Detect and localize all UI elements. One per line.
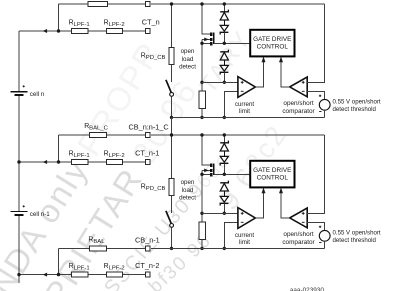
node: junction at rail <box>17 273 20 276</box>
wire <box>223 4 225 12</box>
wire <box>223 164 225 175</box>
wire: channel bottom rail <box>172 116 325 118</box>
node <box>200 133 203 136</box>
wire <box>223 135 225 143</box>
node <box>223 116 226 119</box>
node <box>223 81 226 84</box>
wire: source branch <box>201 170 203 222</box>
wire arrow <box>43 273 47 277</box>
wire: - input row <box>224 91 238 117</box>
svg-text:detect threshold: detect threshold <box>333 106 376 113</box>
transistor Q (balancing MOSFET) <box>210 163 212 166</box>
wire: left battery rail <box>18 31 20 91</box>
svg-text:detect threshold: detect threshold <box>333 237 376 244</box>
svg-text:aaa-023930: aaa-023930 <box>290 287 325 291</box>
svg-text:open/short: open/short <box>283 231 313 238</box>
wire <box>223 33 225 44</box>
wire: gate lead <box>214 42 250 44</box>
svg-text:0.55 V open/short: 0.55 V open/short <box>333 230 381 237</box>
svg-text:open: open <box>181 179 195 186</box>
svg-text:GATE DRIVE: GATE DRIVE <box>253 36 291 43</box>
block U: GATE DRIVE CONTROL <box>250 161 294 188</box>
svg-text:CT_n-2: CT_n-2 <box>135 261 159 270</box>
wire <box>223 73 225 83</box>
wire: + input from CB rail <box>307 135 325 213</box>
node <box>200 2 203 5</box>
node <box>170 116 173 119</box>
wire <box>171 65 173 82</box>
op-amp: current limit <box>238 208 255 229</box>
op-amp: current limit <box>238 77 255 98</box>
svg-text:current: current <box>235 101 255 108</box>
resistor RPD_CB <box>169 48 174 65</box>
wire: CB mid branch <box>58 135 60 162</box>
wire: CB bottom branch <box>58 249 60 275</box>
node <box>200 212 203 215</box>
resistor RPD_CB <box>169 179 174 196</box>
resistor (current sense) <box>199 222 205 240</box>
resistor RLPF-1 <box>71 29 88 34</box>
pin CT_n <box>145 29 150 34</box>
svg-text:limit: limit <box>239 239 250 246</box>
wire: - input to threshold source <box>307 222 325 230</box>
svg-text:comparator: comparator <box>282 239 315 246</box>
pin CT_n-1 <box>145 160 150 165</box>
node <box>200 247 203 250</box>
svg-text:detect: detect <box>179 64 196 71</box>
resistor <box>90 133 107 138</box>
wire: CB row <box>59 248 90 250</box>
svg-text:open/short: open/short <box>283 100 313 107</box>
switch: open load detect <box>166 80 171 93</box>
resistor RLPF-1 <box>71 160 88 165</box>
svg-text:cell n-1: cell n-1 <box>30 211 51 218</box>
wire: gate lead <box>214 173 250 175</box>
comparator: open/short <box>290 77 308 97</box>
node <box>223 133 226 136</box>
wire <box>223 204 225 214</box>
node <box>170 247 173 250</box>
wire: LPF row <box>19 161 71 163</box>
wire: - input row <box>224 222 238 248</box>
wire arrow <box>43 29 47 33</box>
svg-text:GATE DRIVE: GATE DRIVE <box>253 167 291 174</box>
resistor RLPF-2 <box>106 29 122 34</box>
pin CB_n <box>145 2 150 7</box>
wire: drain branch <box>202 4 211 34</box>
wire: comparator output <box>281 58 290 87</box>
node: junction at CB branch <box>57 273 60 276</box>
svg-text:0.55 V open/short: 0.55 V open/short <box>333 99 381 106</box>
svg-text:CB_n:n-1_C: CB_n:n-1_C <box>129 122 169 131</box>
node <box>200 42 203 45</box>
comparator: open/short <box>290 208 308 228</box>
node <box>170 133 173 136</box>
resistor RLPF-1 <box>71 272 88 277</box>
node <box>223 2 226 5</box>
svg-text:CT_n: CT_n <box>142 18 160 27</box>
watermark <box>0 26 293 291</box>
node <box>200 81 203 84</box>
wire: source branch <box>201 39 203 91</box>
pin CB_n:n-1_C <box>145 133 150 138</box>
source V: 0.55 V threshold <box>319 230 330 241</box>
svg-text:limit: limit <box>239 108 250 115</box>
transistor Q (balancing MOSFET) <box>210 32 212 35</box>
node <box>170 2 173 5</box>
switch: open load detect <box>166 211 171 224</box>
wire <box>171 196 173 213</box>
node <box>200 173 203 176</box>
wire: cell n top feed <box>58 4 60 31</box>
wire <box>201 240 203 249</box>
zener pair D2 (back-to-back) <box>220 50 228 52</box>
wire <box>171 227 173 248</box>
zener pair D2 (back-to-back) <box>220 181 228 183</box>
wire: + input row <box>202 212 238 214</box>
svg-text:load: load <box>182 187 194 194</box>
wire: link to CB row <box>171 117 173 135</box>
svg-text:CB_n-1: CB_n-1 <box>135 236 160 245</box>
svg-text:CT_n-1: CT_n-1 <box>135 149 159 158</box>
wire: current limit output <box>255 189 263 219</box>
node <box>200 116 203 119</box>
pin CT_n-2 <box>145 272 150 277</box>
battery cell n-1 <box>11 211 28 213</box>
wire: RPD_CB branch <box>171 135 173 179</box>
wire: + input from CB rail <box>307 4 325 82</box>
svg-text:load: load <box>182 56 194 63</box>
wire: current limit output <box>255 58 263 88</box>
node: junction at rail <box>17 160 20 163</box>
svg-text:CONTROL: CONTROL <box>257 175 289 182</box>
wire <box>324 110 326 117</box>
resistor <box>90 246 107 251</box>
svg-text:open: open <box>181 48 195 55</box>
node <box>223 42 226 45</box>
resistor (current sense) <box>199 91 205 109</box>
wire: CB row <box>59 134 90 136</box>
wire arrow <box>43 160 47 164</box>
wire <box>171 96 173 117</box>
source V: 0.55 V threshold <box>319 99 330 110</box>
wire: + input row <box>202 81 238 83</box>
pin CB_n-1 <box>145 246 150 251</box>
wire <box>201 109 203 118</box>
node <box>223 173 226 176</box>
wire: RPD_CB branch <box>171 4 173 48</box>
node: junction at CB branch <box>57 160 60 163</box>
node: junction at CB branch <box>57 29 60 32</box>
wire: comparator output <box>281 189 290 218</box>
resistor RBAL (top, label cropped) <box>88 2 108 7</box>
node <box>223 212 226 215</box>
zener pair D1 (back-to-back) <box>220 141 228 143</box>
wire: - input to threshold source <box>307 91 325 99</box>
block U: GATE DRIVE CONTROL <box>250 30 294 57</box>
wire: LPF row <box>19 274 71 276</box>
wire <box>324 241 326 248</box>
svg-text:cell n: cell n <box>30 91 45 98</box>
svg-text:CONTROL: CONTROL <box>257 44 289 51</box>
zener pair D1 (back-to-back) <box>220 10 228 12</box>
resistor RLPF-2 <box>106 272 122 277</box>
wire: LPF row <box>19 30 71 32</box>
node <box>223 247 226 250</box>
svg-text:detect: detect <box>179 195 196 202</box>
resistor RLPF-2 <box>106 160 122 165</box>
wire: drain branch <box>202 135 211 165</box>
svg-text:current: current <box>235 232 255 239</box>
svg-text:comparator: comparator <box>282 108 315 115</box>
battery cell n <box>11 91 28 93</box>
